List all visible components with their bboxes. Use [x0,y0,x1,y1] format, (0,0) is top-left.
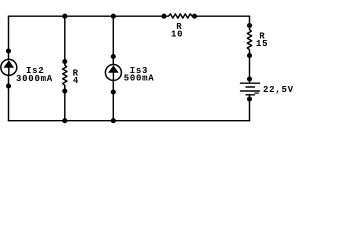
svg-text:22,5V: 22,5V [263,85,294,95]
svg-text:10: 10 [171,29,183,39]
svg-text:3000mA: 3000mA [16,74,53,84]
svg-text:15: 15 [256,39,268,49]
svg-text:500mA: 500mA [124,74,155,84]
svg-text:4: 4 [73,76,79,86]
